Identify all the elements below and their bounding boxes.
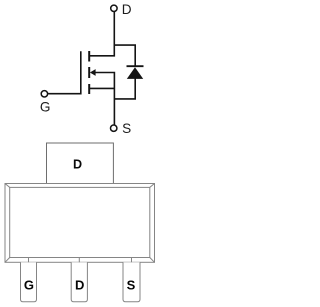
package body inner (10, 187, 150, 257)
mosfet Q1 channel top bar (88, 51, 90, 62)
wire diode bottom (114, 78, 135, 99)
terminal G (41, 91, 47, 97)
wire drain (90, 12, 115, 56)
mosfet Q1 body arrow (90, 69, 96, 76)
wire diode top branch (114, 45, 136, 66)
mosfet Q1 channel middle bar (88, 67, 90, 78)
package lead S (123, 262, 140, 302)
svg-text:G: G (40, 99, 51, 114)
terminal S (111, 125, 117, 131)
diode D1 cathode bar (127, 65, 144, 67)
wire gate (48, 51, 81, 93)
svg-text:D: D (73, 158, 82, 172)
svg-text:D: D (75, 277, 84, 292)
package lead D (71, 262, 87, 302)
package body bevel top-left (5, 184, 10, 188)
wire source lead (90, 87, 115, 89)
package lead G tick (28, 258, 30, 263)
mosfet Q1 channel bottom bar (88, 84, 90, 94)
svg-text:G: G (24, 277, 34, 292)
package body outer (5, 184, 155, 263)
terminal D (111, 5, 117, 11)
wire body to source (95, 73, 114, 125)
svg-text:S: S (122, 121, 131, 136)
svg-text:D: D (122, 2, 132, 17)
package body bevel top-right (150, 184, 155, 188)
package tab (47, 143, 114, 184)
package lead G (21, 262, 37, 302)
package body bevel bottom-left (5, 258, 10, 263)
diode D1 anode triangle (127, 67, 143, 79)
svg-text:S: S (127, 277, 136, 292)
package body bevel bottom-right (150, 258, 155, 263)
package lead S tick (131, 258, 133, 263)
package lead D tick (78, 258, 80, 263)
